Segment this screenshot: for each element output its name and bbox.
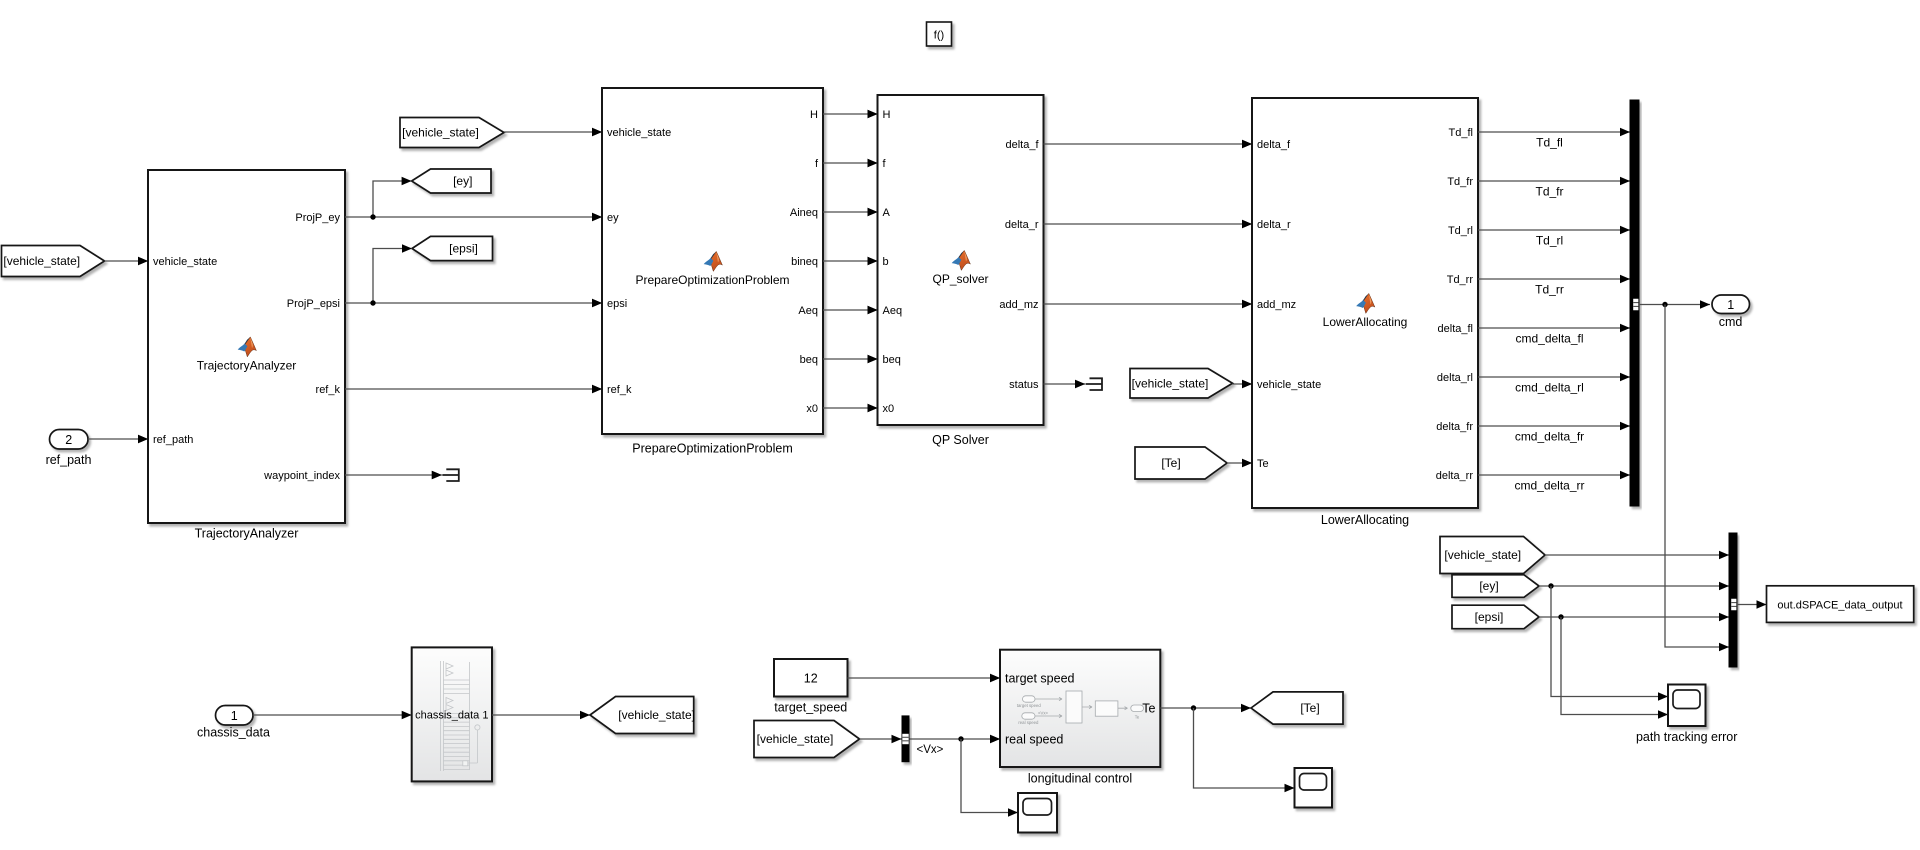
svg-text:out.dSPACE_data_output: out.dSPACE_data_output (1777, 600, 1902, 612)
from tag ey br (1452, 575, 1539, 598)
signal label cmd_delta_rr (1514, 479, 1584, 493)
svg-text:beq: beq (800, 354, 818, 366)
svg-text:delta_f: delta_f (1005, 139, 1039, 151)
port outport 1 cmd (1712, 295, 1750, 329)
wire delta_f -> LowerAllocating (1044, 140, 1253, 149)
block out.dSPACE_data_output (1767, 586, 1914, 623)
svg-text:vehicle_state: vehicle_state (607, 127, 671, 139)
wire vehicle_state tag -> selector (860, 735, 902, 744)
wire ref_path -> TrajectoryAnalyzer (88, 435, 148, 444)
constant target_speed = 12 (774, 659, 848, 715)
signal label Td_rl (1536, 234, 1563, 248)
wire bineq -> QP_solver (823, 257, 878, 266)
wire x0 -> QP_solver (823, 404, 878, 413)
mux cmd mux (1630, 100, 1639, 506)
svg-text:waypoint_index: waypoint_index (263, 470, 340, 482)
mux dspace mux (1729, 533, 1737, 667)
wire Td_fr -> mux (1478, 177, 1630, 186)
svg-text:[vehicle_state]: [vehicle_state] (402, 126, 479, 140)
goto tag epsi (412, 236, 493, 260)
svg-text:[epsi]: [epsi] (449, 242, 478, 256)
goto tag vehicle_state bl (590, 697, 695, 734)
svg-text:delta_rr: delta_rr (1436, 470, 1474, 482)
wire delta_fl -> mux (1478, 324, 1630, 333)
junction ProjP_ey (370, 214, 375, 219)
svg-text:bineq: bineq (791, 256, 818, 268)
svg-text:ref_k: ref_k (316, 384, 341, 396)
svg-text:cmd_delta_fl: cmd_delta_fl (1515, 332, 1583, 346)
wire Td_fl -> mux (1478, 128, 1630, 137)
wire Te -> goto Te (1160, 704, 1251, 713)
wire selector -> real speed (910, 735, 1001, 744)
wire delta_r -> LowerAllocating (1044, 220, 1253, 229)
svg-text:<Vx>: <Vx> (1038, 711, 1049, 716)
svg-text:delta_fr: delta_fr (1436, 421, 1473, 433)
svg-text:add_mz: add_mz (999, 299, 1038, 311)
svg-text:x0: x0 (806, 403, 818, 415)
svg-text:[Te]: [Te] (1300, 701, 1319, 715)
svg-text:[vehicle_state]: [vehicle_state] (1444, 548, 1521, 562)
goto tag Te br (1251, 692, 1343, 724)
wire ref_k -> ref_k (345, 385, 602, 394)
unconnected terminator status (1075, 378, 1102, 390)
svg-text:real speed: real speed (1005, 733, 1063, 747)
wire cmd branch -> mux2 (1665, 305, 1729, 652)
svg-text:vehicle_state: vehicle_state (153, 256, 217, 268)
svg-text:ProjP_ey: ProjP_ey (295, 212, 340, 224)
svg-text:chassis_data: chassis_data (197, 726, 270, 740)
wire epsi branch -> scope (1561, 617, 1668, 719)
svg-text:Aeq: Aeq (798, 305, 818, 317)
wire chassis_data -> subsystem (253, 711, 412, 720)
from tag vehicle_state mid (1130, 369, 1233, 399)
wire ProjP_ey -> ey (345, 213, 602, 222)
svg-text:ref_k: ref_k (607, 384, 632, 396)
wire delta_rr -> mux (1478, 471, 1630, 480)
svg-text:LowerAllocating: LowerAllocating (1323, 315, 1408, 329)
wire beq -> QP_solver (823, 355, 878, 364)
svg-text:target speed: target speed (1017, 703, 1041, 708)
junction ProjP_epsi (370, 300, 375, 305)
from tag Te mid (1135, 447, 1227, 479)
svg-text:1: 1 (231, 709, 238, 723)
wire waypoint_index -> terminator (345, 471, 442, 480)
wire f -> QP_solver (823, 159, 878, 168)
wire delta_rl -> mux (1478, 373, 1630, 382)
wire Td_rr -> mux (1478, 275, 1630, 284)
wire mux -> outport cmd (1639, 300, 1710, 309)
svg-text:ey: ey (607, 212, 619, 224)
wire vehicle_state -> TrajectoryAnalyzer (105, 257, 149, 266)
block QP_solver (868, 95, 1044, 447)
wire Te tag -> LowerAllocating (1227, 459, 1252, 468)
svg-text:[vehicle_state]: [vehicle_state] (618, 708, 695, 722)
junction Vx (958, 736, 963, 741)
svg-text:QP_solver: QP_solver (932, 272, 988, 286)
bus selector <Vx> (902, 715, 910, 762)
svg-text:cmd_delta_fr: cmd_delta_fr (1515, 430, 1584, 444)
wire status -> terminator (1044, 380, 1086, 389)
svg-text:H: H (883, 109, 891, 121)
wire H -> QP_solver (823, 110, 878, 119)
block PrepareOptimizationProblem (592, 88, 823, 456)
from tag vehicle_state top (400, 118, 504, 148)
svg-text:[vehicle_state]: [vehicle_state] (1132, 376, 1209, 390)
wire ey tag -> mux2 (1539, 582, 1729, 591)
svg-text:f(): f() (934, 30, 944, 42)
block TrajectoryAnalyzer (138, 170, 345, 541)
wire Te branch -> scope (1194, 708, 1295, 792)
svg-text:PrepareOptimizationProblem: PrepareOptimizationProblem (635, 273, 789, 287)
scope Vx scope (1018, 793, 1057, 833)
svg-text:vehicle_state: vehicle_state (1257, 379, 1321, 391)
label path tracking error (1636, 730, 1737, 744)
junction cmd (1662, 302, 1667, 307)
wire 12 -> target speed (848, 674, 1001, 683)
svg-text:delta_f: delta_f (1257, 139, 1291, 151)
svg-text:Td_fl: Td_fl (1449, 127, 1473, 139)
from tag vehicle_state br (1440, 537, 1545, 574)
svg-text:Td_rr: Td_rr (1535, 283, 1564, 297)
svg-text:target_speed: target_speed (774, 701, 847, 715)
junction Te (1191, 705, 1196, 710)
svg-text:cmd: cmd (1719, 315, 1743, 329)
signal label cmd_delta_fr (1515, 430, 1584, 444)
svg-text:Td_fr: Td_fr (1447, 176, 1473, 188)
signal label Td_fr (1535, 185, 1563, 199)
svg-text:Te: Te (1257, 458, 1269, 470)
svg-text:2: 2 (65, 433, 72, 447)
svg-text:TrajectoryAnalyzer: TrajectoryAnalyzer (197, 359, 297, 373)
svg-text:[vehicle_state]: [vehicle_state] (757, 732, 834, 746)
svg-text:Td_rl: Td_rl (1536, 234, 1563, 248)
wire vehicle_state tag -> PrepareOptimizationProblem (504, 128, 602, 137)
wire epsi tag -> mux2 (1539, 613, 1729, 622)
junction epsi (1558, 614, 1563, 619)
from tag vehicle_state bl2 (754, 721, 860, 758)
svg-text:[ey]: [ey] (453, 174, 472, 188)
junction ey (1548, 583, 1553, 588)
svg-text:delta_r: delta_r (1257, 219, 1291, 231)
svg-text:Te: Te (1135, 714, 1140, 719)
block LowerAllocating (1242, 98, 1478, 527)
subsystem chassis_data 1 (412, 647, 492, 781)
scope Te scope (1295, 768, 1333, 808)
wire vehicle_state tag -> mux2 (1545, 551, 1729, 560)
svg-text:Aineq: Aineq (790, 207, 818, 219)
svg-text:<Vx>: <Vx> (917, 744, 944, 756)
svg-text:real speed: real speed (1018, 720, 1039, 725)
svg-text:Td_fr: Td_fr (1535, 185, 1563, 199)
svg-text:x0: x0 (883, 403, 895, 415)
svg-text:delta_rl: delta_rl (1437, 372, 1473, 384)
svg-text:status: status (1009, 379, 1039, 391)
svg-text:Td_rl: Td_rl (1448, 225, 1473, 237)
svg-text:path tracking error: path tracking error (1636, 730, 1737, 744)
label <Vx> (917, 744, 944, 756)
port inport 2 ref_path (46, 430, 92, 468)
wire add_mz -> LowerAllocating (1044, 300, 1253, 309)
svg-text:Td_rr: Td_rr (1447, 274, 1474, 286)
signal label cmd_delta_fl (1515, 332, 1583, 346)
wire branch -> goto ey (373, 177, 412, 217)
svg-text:QP Solver: QP Solver (932, 433, 989, 447)
signal label cmd_delta_rl (1515, 381, 1584, 395)
svg-text:1: 1 (1727, 298, 1734, 312)
wire branch -> goto epsi (373, 244, 412, 303)
scope path tracking error (1668, 685, 1706, 727)
wire Aeq -> QP_solver (823, 306, 878, 315)
from tag epsi br (1452, 605, 1539, 629)
svg-text:Aeq: Aeq (883, 305, 903, 317)
svg-text:PrepareOptimizationProblem: PrepareOptimizationProblem (632, 442, 793, 456)
svg-text:beq: beq (883, 354, 901, 366)
svg-text:add_mz: add_mz (1257, 299, 1296, 311)
wire Aineq -> QP_solver (823, 208, 878, 217)
svg-text:cmd_delta_rl: cmd_delta_rl (1515, 381, 1584, 395)
svg-text:TrajectoryAnalyzer: TrajectoryAnalyzer (195, 527, 299, 541)
svg-text:b: b (883, 256, 889, 268)
svg-text:chassis_data 1: chassis_data 1 (415, 710, 488, 722)
trigger block f() (927, 22, 952, 46)
svg-text:[epsi]: [epsi] (1475, 610, 1504, 624)
svg-text:ref_path: ref_path (46, 453, 92, 467)
svg-text:longitudinal control: longitudinal control (1028, 772, 1132, 786)
signal label Td_fl (1536, 136, 1563, 150)
svg-text:Te: Te (1142, 702, 1155, 716)
wire vehicle_state tag -> LowerAllocating (1233, 380, 1253, 389)
wire ey branch -> scope (1551, 586, 1668, 701)
wire Td_rl -> mux (1478, 226, 1630, 235)
svg-text:LowerAllocating: LowerAllocating (1321, 513, 1409, 527)
svg-text:A: A (883, 207, 891, 219)
from tag vehicle_state left (2, 246, 105, 277)
svg-text:[ey]: [ey] (1479, 579, 1498, 593)
svg-text:delta_fl: delta_fl (1438, 323, 1473, 335)
svg-text:ProjP_epsi: ProjP_epsi (287, 298, 340, 310)
wire Vx branch -> scope (961, 739, 1018, 817)
svg-text:[vehicle_state]: [vehicle_state] (3, 254, 80, 268)
svg-text:[Te]: [Te] (1161, 456, 1180, 470)
port inport 1 chassis_data (197, 706, 270, 740)
signal label Td_rr (1535, 283, 1564, 297)
svg-text:ref_path: ref_path (153, 434, 193, 446)
goto tag ey (412, 169, 491, 193)
subsystem longitudinal control (990, 650, 1160, 786)
svg-text:epsi: epsi (607, 298, 627, 310)
wire delta_fr -> mux (1478, 422, 1630, 431)
svg-text:delta_r: delta_r (1005, 219, 1039, 231)
svg-text:H: H (810, 109, 818, 121)
svg-text:Td_fl: Td_fl (1536, 136, 1563, 150)
svg-text:cmd_delta_rr: cmd_delta_rr (1514, 479, 1584, 493)
wire mux2 -> out.dSPACE_data_output (1737, 600, 1767, 609)
wire subsystem -> goto vehicle_state (492, 711, 590, 720)
svg-text:12: 12 (804, 672, 818, 686)
wire ProjP_epsi -> epsi (345, 299, 602, 308)
unconnected terminator waypoint_index (432, 469, 459, 481)
svg-text:target speed: target speed (1005, 672, 1075, 686)
